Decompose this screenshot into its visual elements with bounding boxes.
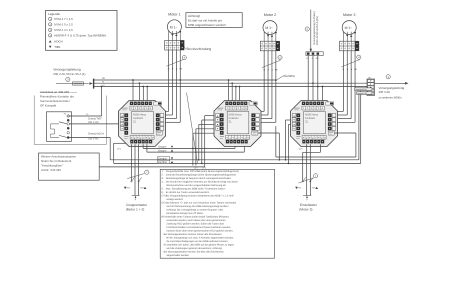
svg-text:L1: L1	[306, 57, 309, 60]
wire drops bus to MSB U2	[228, 80, 230, 102]
wire drop bus L1 to MSB U3	[322, 87, 324, 102]
note box numbered notes	[160, 169, 274, 258]
svg-text:N: N	[263, 68, 265, 71]
wire bundle motor M3 to MSB right side	[342, 51, 344, 112]
cable marker circled 3 outgoing	[386, 75, 390, 79]
svg-text:Zentral: Zentral	[158, 160, 167, 164]
wire MSB U1 to Gruppentaster right	[138, 144, 140, 195]
svg-text:L1: L1	[368, 84, 370, 87]
wire U3 einzeltaster right	[309, 144, 311, 195]
svg-text:▼: ▼	[267, 68, 269, 71]
tag Zentral TIEF	[357, 92, 372, 95]
wire bus PE	[94, 79, 277, 81]
svg-text:NYM-J 3 x 1,5: NYM-J 3 x 1,5	[54, 28, 73, 32]
svg-text:▲: ▲	[350, 68, 352, 71]
svg-text:230 V AC: 230 V AC	[88, 138, 99, 141]
svg-text:(Motor 3): (Motor 3)	[299, 208, 312, 212]
svg-text:GF Kompakt: GF Kompakt	[40, 104, 56, 108]
switch Einzeltaster S2	[302, 181, 303, 182]
wire MSB U1 to Gruppentaster left	[130, 144, 132, 181]
wire common rail to MSB U2	[99, 166, 204, 168]
wire bundle to MSB U2 left side	[201, 120, 203, 163]
svg-text:Legende: Legende	[48, 12, 60, 16]
relay terminal 5	[67, 131, 70, 134]
svg-text:PE: PE	[64, 113, 67, 116]
svg-text:finden Sie im Dokument: finden Sie im Dokument	[41, 159, 71, 163]
svg-text:Klemme: Klemme	[283, 74, 295, 78]
MSB module U3	[291, 101, 338, 147]
svg-text:Motor 3: Motor 3	[343, 13, 356, 17]
wire supply feed with arrow	[56, 83, 89, 85]
svg-text:Potentialfreie Kontakte der: Potentialfreie Kontakte der	[40, 95, 74, 99]
legend box	[46, 11, 118, 51]
svg-text:zu weiteren MSB’s: zu weiteren MSB’s	[379, 96, 403, 100]
svg-text:H05RR-F 4 G 0,75 qmm, Typ WARE: H05RR-F 4 G 0,75 qmm, Typ WAREMA	[54, 33, 106, 37]
wire control rail 3	[275, 126, 277, 157]
svg-text:(1*): (1*)	[117, 148, 121, 151]
svg-text:230 V AC 50 Hz /16 A (1): 230 V AC 50 Hz /16 A (1)	[53, 72, 85, 76]
wire bundle motor M2 to MSB right side	[263, 51, 265, 112]
svg-text:Sonnenschutzzentrale /: Sonnenschutzzentrale /	[40, 99, 70, 103]
svg-text:MSB angeschlossen werden!: MSB angeschlossen werden!	[188, 23, 226, 27]
bus start bar	[93, 79, 95, 89]
svg-text:Einzeltaster: Einzeltaster	[300, 203, 318, 207]
wire bundle to MSB U3 left side	[285, 120, 287, 160]
wire U2 aux link to rail	[258, 132, 279, 134]
svg-text:Anschluss an JSE 245: Anschluss an JSE 245	[40, 90, 69, 94]
svg-text:PE: PE	[275, 68, 278, 71]
svg-text:Achtung!: Achtung!	[188, 14, 200, 18]
svg-text:Zentral HOCH: Zentral HOCH	[355, 88, 367, 91]
svg-text:"Anschlusspläne": "Anschlusspläne"	[41, 164, 63, 168]
wire bus N	[94, 82, 367, 84]
wire Zentral rails rise to outgoing tags	[358, 93, 360, 159]
svg-text:N: N	[168, 67, 170, 70]
svg-text:(2*): (2*)	[299, 148, 303, 151]
svg-text:P: P	[135, 199, 137, 202]
switch Gruppentaster S1	[131, 181, 132, 182]
note box Achtung	[186, 13, 242, 28]
svg-text:Gruppe: Gruppe	[158, 149, 167, 152]
relay contact arms	[59, 122, 67, 124]
svg-text:4.: 4.	[162, 180, 164, 183]
svg-text:HOCH: HOCH	[54, 40, 63, 44]
junction motor M1 PE to bus	[179, 79, 181, 81]
svg-text:NYM-J 7 x 1,5: NYM-J 7 x 1,5	[54, 17, 73, 21]
terminal strip under riser	[306, 52, 323, 56]
legend item cable type 2	[49, 23, 52, 26]
MSB module U1	[119, 101, 166, 147]
relay box K1	[47, 112, 72, 142]
cable marker motor M1	[166, 59, 185, 66]
legend item HOCH	[49, 40, 52, 42]
wire drops bus to MSB U1	[132, 80, 134, 102]
svg-text:Weitere Anschlussvarianten: Weitere Anschlussvarianten	[41, 155, 76, 159]
relay terminal 4	[67, 127, 70, 130]
wire rail Zentral up	[114, 142, 126, 144]
wire rail Gruppe down	[142, 144, 144, 148]
cable tag on supply wire	[73, 82, 84, 85]
wire U3 einzeltaster loop	[319, 144, 321, 152]
dashed boundary customer side	[33, 96, 35, 145]
wire Zentral TIEF from relay	[70, 123, 119, 125]
svg-text:Gruppentaster: Gruppentaster	[126, 203, 148, 207]
cable marker circled 2 on riser	[305, 27, 309, 31]
svg-text:P: P	[306, 199, 308, 202]
wire stubs to footnote markers	[192, 148, 194, 165]
svg-text:abgeschaltet werden.: abgeschaltet werden.	[166, 254, 189, 257]
svg-text:N: N	[343, 68, 345, 71]
svg-text:▼: ▼	[172, 67, 174, 70]
svg-text:Gruppe: Gruppe	[158, 146, 167, 149]
wire rail Zentral down	[109, 138, 111, 160]
cable marker Einzeltaster S2	[299, 178, 314, 183]
MSB module U2	[214, 101, 261, 147]
svg-text:Art.Nr.: 016 346: Art.Nr.: 016 346	[41, 168, 61, 172]
wire MSB U1 to Gruppentaster mid	[134, 144, 136, 195]
svg-text:230 V AC: 230 V AC	[88, 121, 99, 124]
wire outgoing supply	[375, 82, 406, 84]
svg-text:Steckverbindung: Steckverbindung	[186, 47, 211, 51]
svg-text:Motor 1: Motor 1	[168, 12, 181, 16]
svg-text:L1: L1	[86, 113, 89, 116]
svg-text:PE: PE	[354, 68, 357, 71]
wire bundle motor M1 to MSB right side	[168, 50, 170, 111]
svg-text:Motor 2: Motor 2	[264, 13, 277, 17]
svg-text:Zentral TIEF: Zentral TIEF	[88, 118, 102, 121]
relay terminal 2	[67, 119, 70, 122]
wire L1 tap down to relay	[101, 86, 103, 88]
relay terminal 3	[67, 123, 70, 126]
junction motor M2 PE to bus	[275, 79, 277, 81]
relay terminal 1	[67, 115, 70, 118]
svg-text:230V AC/50 Hz/16 A (PE): 230V AC/50 Hz/16 A (PE)	[316, 16, 319, 45]
svg-text:Zentral TIEF: Zentral TIEF	[357, 92, 367, 95]
legend item cable type 4	[49, 34, 52, 37]
svg-text:NYM-J 5 x 1,5: NYM-J 5 x 1,5	[54, 22, 73, 26]
svg-text:(Motor 1 + 2): (Motor 1 + 2)	[126, 208, 145, 212]
legend item cable type 3	[49, 28, 52, 31]
svg-text:▲: ▲	[271, 68, 273, 71]
svg-text:▲: ▲	[176, 67, 178, 70]
wire bus L1	[94, 86, 367, 88]
svg-text:TIEF: TIEF	[54, 45, 60, 49]
cable marker Gruppentaster S1	[127, 174, 144, 179]
wire Zentral HOCH from relay	[70, 137, 111, 139]
svg-text:230 V AC: 230 V AC	[379, 90, 391, 94]
svg-text:▼: ▼	[346, 68, 348, 71]
tag Zentral HOCH	[355, 88, 372, 91]
wire rail Gruppe up	[146, 144, 148, 152]
cable marker motor M3	[341, 60, 359, 67]
wire supply riser 2-phase	[310, 10, 312, 50]
cable marker circled 3 left supply	[66, 77, 70, 81]
wire diagonal U1 to U2 area	[187, 93, 198, 164]
wire U3 einzeltaster mid	[306, 144, 308, 195]
cable marker motor M2	[262, 60, 280, 67]
legend item cable type 1	[49, 17, 52, 20]
note box Weitere Anschlussvarianten	[39, 153, 100, 180]
svg-text:PE: PE	[179, 67, 182, 70]
legend item TIEF	[49, 46, 52, 48]
wire riser drops to MSB U3 top	[307, 55, 309, 101]
svg-text:Zentral HOCH: Zentral HOCH	[88, 132, 104, 135]
relay terminal 6	[67, 136, 70, 139]
